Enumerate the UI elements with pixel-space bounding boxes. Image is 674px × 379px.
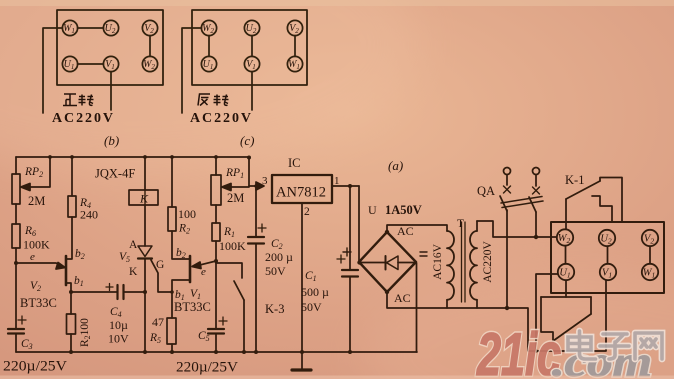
capacitor C2 plates [248, 237, 264, 244]
pin 3 arrow into IC [256, 182, 264, 190]
wire R6 to emitter node [15, 248, 17, 263]
primary top lead [476, 221, 478, 231]
K-2 blade [553, 314, 591, 341]
switch K-3 top lead [216, 263, 242, 278]
svg-text:K: K [129, 266, 138, 278]
link W2-U1 [208, 36, 210, 57]
bridge inner diode bar [385, 256, 387, 270]
relay coil K box [129, 190, 158, 205]
potentiometer RP1 body [211, 175, 221, 205]
node mains bottom [505, 306, 509, 310]
svg-text:BT33C: BT33C [174, 300, 211, 314]
K-1 fixed contact step [592, 196, 612, 222]
wire b1 to R5 [171, 292, 173, 318]
capacitor C3 plates [8, 329, 24, 334]
svg-text:K: K [139, 192, 149, 206]
WATERMARK SECTION [476, 322, 662, 379]
svg-text:A: A [129, 239, 138, 251]
wire C2 feed [255, 186, 257, 237]
V1 emitter arrowhead [192, 262, 201, 269]
wire through coil box [144, 190, 146, 205]
svg-text:AC: AC [397, 224, 414, 238]
wire b1 node to R2a [70, 292, 72, 314]
svg-text:G: G [156, 259, 164, 271]
node C2 ground [254, 350, 258, 354]
node coil rail [143, 155, 147, 159]
resistor R4 body [68, 196, 76, 217]
node RP1 rail [214, 155, 218, 159]
terminal W1 block [642, 264, 658, 280]
node pole2 line [534, 235, 538, 239]
transformer primary winding AC220V [470, 231, 477, 300]
link W2-U1 block [565, 246, 567, 264]
watermark 电 strokes [568, 331, 596, 359]
terminal W1 [287, 56, 302, 71]
svg-text:e: e [201, 266, 206, 278]
terminal U1 block [558, 264, 574, 280]
mains line to primary top [477, 221, 536, 237]
node bridge left [357, 260, 361, 264]
C3 plus sign [18, 316, 26, 324]
terminal W2 block [557, 229, 573, 245]
wire left column top [15, 157, 17, 174]
terminal U2 [244, 20, 259, 35]
K-1 throw lead upper [600, 178, 622, 223]
wire cathode node to ground [144, 292, 146, 352]
thyristor V5 triangle [138, 246, 152, 257]
V2 emitter arrowhead [56, 263, 65, 270]
svg-text:1: 1 [334, 175, 340, 187]
terminal U2 block [599, 230, 615, 246]
node C5 ground [214, 350, 218, 354]
terminal W2 [201, 20, 216, 35]
node C1 tap [348, 184, 352, 188]
K-2 right lead [590, 297, 592, 314]
QA pole1 contact x [504, 186, 511, 193]
svg-text:100: 100 [178, 207, 196, 221]
svg-text:AC220V: AC220V [190, 111, 251, 126]
terminal letters for box b [63, 23, 155, 71]
RP1 wiper feed [230, 158, 249, 187]
V1 emitter wire [199, 261, 216, 265]
transformer secondary winding AC16V [447, 231, 454, 300]
svg-text:AC16V: AC16V [432, 243, 444, 279]
C2 plus sign [258, 224, 266, 232]
wire R1 to emitter node [215, 241, 217, 261]
emitter wire of V2 [16, 263, 63, 267]
secondary bottom stub [446, 300, 448, 308]
labels of sub-figures [52, 111, 254, 148]
terminal U2 [103, 20, 118, 35]
svg-text:21ic: 21ic [476, 322, 561, 379]
node emitter V1 [214, 259, 218, 263]
RP2 wiper arrowhead [21, 184, 30, 191]
wire cathode down [144, 259, 146, 293]
link V2-W2 [149, 36, 151, 57]
svg-text:2: 2 [304, 206, 310, 218]
QA pole1 lead [506, 175, 508, 186]
wire bridge bottom AC run [387, 292, 507, 308]
QA blade 1 [500, 196, 507, 211]
QA linkage bar [501, 197, 543, 208]
resistor R5 body [167, 318, 176, 344]
switch QA pole 1 terminal [504, 168, 511, 175]
wire C2 to ground [255, 244, 257, 353]
link W1-U2 [78, 27, 104, 29]
node R4 rail [70, 155, 74, 159]
thyristor gate wire [151, 260, 172, 292]
capacitor C5 plates [208, 329, 224, 334]
wire node to C3 [15, 263, 17, 329]
svg-text:BT33C: BT33C [20, 296, 57, 310]
IC output wire pin1 [332, 185, 359, 187]
svg-text:T: T [457, 218, 464, 230]
wire RP2 to R6 [15, 204, 17, 224]
wire C1 feed [349, 186, 351, 270]
QA pole2 contact x [533, 187, 540, 194]
link V2-W1 block [649, 246, 651, 264]
wire C3 to ground rail [15, 334, 17, 353]
node bridge bottom [385, 290, 389, 294]
svg-text:K-1: K-1 [565, 173, 584, 187]
link U2-V1 block [607, 246, 609, 264]
mains run to V1 terminal [507, 280, 606, 351]
ground symbol bar [292, 368, 311, 371]
watermark .com [552, 339, 652, 379]
supply wire from W1 [43, 28, 62, 113]
wire R5 to ground [171, 344, 173, 352]
node emitter V2 [14, 261, 18, 265]
capacitor C1 plates [342, 270, 358, 277]
V1 b2 lead [172, 231, 190, 259]
coupling wire b1 to C4 [71, 291, 117, 293]
svg-text:IC: IC [288, 156, 301, 170]
+12V top rail [16, 156, 249, 158]
IC AN7812 box [272, 175, 332, 203]
node cathode C4 [143, 290, 147, 294]
svg-text:U: U [368, 203, 377, 217]
svg-text:(a): (a) [388, 158, 403, 173]
V2 b1 lead [67, 283, 72, 292]
resistor R6 body [12, 224, 20, 248]
resistor R2a body (vertical label) [67, 314, 76, 334]
ground bottom rail [16, 351, 417, 353]
terminal box (b) frame [57, 10, 163, 85]
wire emitter node to C5 [215, 261, 217, 329]
contact K-2 pivot lead from U1 [565, 280, 567, 297]
primary bottom stub [476, 300, 478, 308]
svg-text:AN7812: AN7812 [276, 185, 326, 201]
wire regulator input left [249, 185, 256, 187]
V2 b2 lead [67, 217, 73, 259]
wire U1 to mains run [536, 274, 558, 351]
link U2-V1 [251, 36, 253, 57]
wire R2a to ground [70, 334, 72, 352]
node RP2 rail [48, 155, 52, 159]
svg-text:AC220V: AC220V [52, 111, 113, 126]
thyristor cathode bar [138, 257, 152, 259]
C5 plus sign [219, 317, 227, 325]
V1 b1 lead [172, 280, 190, 292]
switch K-3 bottom lead [243, 300, 245, 352]
svg-text:(c): (c) [240, 133, 254, 148]
wire bridge top AC to secondary [387, 225, 447, 232]
svg-text:JQX-4F: JQX-4F [95, 167, 135, 181]
terminal V2 [287, 20, 302, 35]
bridge plus sign [343, 248, 351, 256]
node R5 ground [170, 350, 174, 354]
terminal W2 [142, 56, 157, 71]
watermark 网 strokes [635, 333, 662, 359]
terminal V1 [103, 56, 118, 71]
svg-text:240: 240 [80, 208, 98, 222]
IC pin2 ground wire [301, 203, 303, 352]
wire rail to RP1 [215, 157, 217, 175]
mains line to W2 [536, 236, 557, 238]
bridge minus wire down [416, 263, 418, 352]
terminal U1 [201, 56, 216, 71]
wire coil to SCR anode [144, 205, 146, 246]
paper edge strip bottom [0, 376, 674, 379]
watermark 子 strokes [600, 334, 629, 359]
node C1 ground [348, 350, 352, 354]
terminal V1 block [600, 264, 616, 280]
node b1 gate [170, 290, 174, 294]
terminal U1 [62, 56, 77, 71]
wire RP1 to R1 [215, 205, 217, 223]
RP1 wiper arrowhead [222, 184, 231, 191]
svg-text:100K: 100K [23, 238, 50, 252]
terminal V2 block [642, 230, 658, 246]
UJT V1 base bar [189, 256, 192, 282]
node b1 V2 [69, 290, 73, 294]
svg-text:3: 3 [262, 175, 268, 187]
K-1 blade [566, 181, 600, 199]
link U1-V1 [78, 63, 104, 65]
paper edge strip top [0, 0, 674, 6]
wire C4 to cathode node [124, 291, 146, 293]
QA blade 2 [529, 197, 536, 212]
switch K-3 blade [234, 281, 244, 300]
svg-text:10µ: 10µ [109, 318, 128, 332]
svg-text:47: 47 [152, 315, 164, 329]
bridge inner lead left [361, 262, 385, 264]
motor terminal block frame [551, 222, 664, 293]
node R2a ground [69, 350, 73, 354]
label 正转 (hand drawn strokes) [63, 94, 94, 106]
wire R2 to rail [171, 157, 173, 207]
svg-text:220µ/25V: 220µ/25V [3, 359, 68, 375]
supply wire from W2 [182, 28, 201, 113]
link V2-W1 [294, 36, 296, 57]
terminal V2 [142, 20, 157, 35]
node bridge top [385, 230, 389, 234]
node K-3 ground [242, 350, 246, 354]
svg-text:R2100: R2100 [79, 318, 92, 347]
RP2 wiper feed wire [29, 157, 50, 187]
svg-text:K-3: K-3 [265, 302, 284, 316]
bridge inner diode triangle [387, 256, 399, 270]
svg-text:2M: 2M [227, 191, 244, 205]
capacitor C4 plates [118, 285, 124, 299]
C4 plus sign [106, 284, 113, 291]
terminal W1 [62, 20, 77, 35]
resistor R1 body [212, 223, 220, 241]
relay contact K-1 pivot lead [565, 199, 567, 229]
K-2 left step [541, 297, 553, 341]
K-2 crossbar wire [541, 296, 591, 298]
node cathode ground [143, 350, 147, 354]
supply wire from V1 [110, 72, 112, 110]
terminal box (c) frame [192, 10, 307, 85]
svg-text:e: e [30, 251, 35, 263]
relay coil feed wire [144, 157, 146, 190]
node R2 rail [170, 155, 174, 159]
labels of main left circuit [3, 156, 340, 376]
switch QA pole 2 terminal [533, 168, 540, 175]
bridge minus sign [420, 252, 427, 256]
svg-text:AC: AC [394, 291, 411, 305]
svg-text:AC220V: AC220V [482, 241, 494, 283]
potentiometer RP2 body [12, 174, 20, 204]
svg-text:100K: 100K [219, 239, 246, 253]
QA pole2 wire down [535, 212, 537, 237]
UJT V2 base bar [65, 256, 68, 285]
node rail end [247, 156, 251, 160]
watermark 21ic [476, 322, 561, 379]
node U1 run junction [534, 349, 538, 353]
node C2 tap [254, 184, 258, 188]
wire C5 to ground [215, 334, 217, 353]
labels of right section [368, 158, 584, 305]
ground symbol stem [301, 352, 303, 369]
wire C1 to ground [349, 277, 351, 353]
svg-text:(b): (b) [104, 133, 119, 148]
QA pole2 lead [535, 175, 537, 187]
wire R4 to rail [71, 157, 73, 196]
C1 plus sign [337, 255, 345, 263]
node pin2 ground [300, 350, 304, 354]
wire rail to bridge plus [358, 186, 360, 262]
bridge inner lead right [398, 262, 414, 264]
svg-text:2M: 2M [28, 194, 45, 208]
terminal V1 [244, 56, 259, 71]
svg-text:QA: QA [477, 184, 495, 198]
svg-text:50V: 50V [301, 300, 322, 314]
resistor R2 body [168, 207, 176, 231]
svg-text:200 µ: 200 µ [265, 250, 293, 264]
svg-text:10V: 10V [108, 332, 129, 346]
svg-text:50V: 50V [265, 264, 286, 278]
terminal letters for box c [202, 23, 300, 71]
terminal letters for motor block [558, 233, 656, 280]
supply wire from V1 [251, 72, 253, 110]
QA pole1 wire down to mains node [506, 210, 508, 308]
bridge rectifier U diamond [359, 232, 416, 292]
svg-text:220µ/25V: 220µ/25V [176, 360, 239, 376]
transformer core lines [462, 222, 466, 302]
label 反转 (hand drawn strokes) [198, 94, 229, 106]
svg-text:1A50V: 1A50V [385, 203, 422, 217]
svg-text:500 µ: 500 µ [301, 285, 329, 299]
